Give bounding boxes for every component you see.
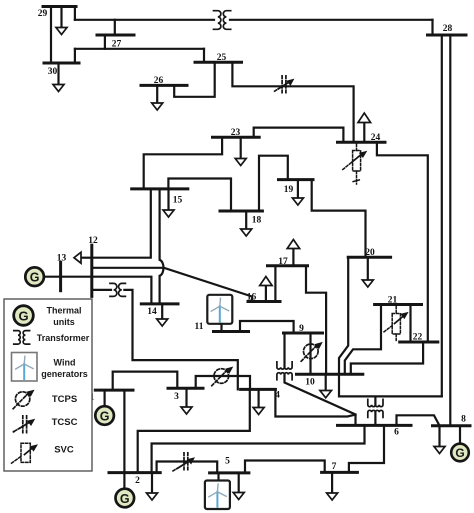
load arrow head bus 15 (163, 210, 174, 217)
bus 22 bar (400, 341, 438, 344)
thermal unit G bus 1 (95, 406, 114, 425)
wire 24-25 (232, 62, 353, 142)
wire 2-4 (138, 389, 250, 472)
bus 21 bar (375, 303, 422, 306)
load arrow bus 20 (367, 257, 369, 280)
bus 14 bar (141, 302, 178, 305)
legend wind generator icon (12, 353, 38, 382)
load arrow head bus 4 (253, 408, 264, 415)
bus 27 bar (97, 34, 134, 37)
load arrow head bus 19 (292, 198, 303, 205)
SVC at bus 24 (343, 144, 361, 184)
wire 6-7 (349, 425, 384, 472)
bus 16 bar (248, 300, 280, 303)
svg-text:Transformer: Transformer (37, 333, 90, 343)
svg-text:G: G (30, 271, 40, 285)
wire 6-8 (397, 415, 440, 425)
wire down to bus 25 (203, 49, 205, 62)
wire 1-2 (123, 390, 125, 473)
load arrow bus 15 (167, 189, 169, 210)
svg-text:15: 15 (173, 196, 183, 206)
svg-text:13: 13 (57, 254, 67, 264)
load arrow bus 30 (57, 63, 59, 85)
load arrow bus 29 (60, 7, 62, 28)
wire 27-30 and 25-27 shared horizontal (75, 48, 204, 50)
svg-text:25: 25 (217, 53, 227, 63)
legend thermal unit icon (14, 306, 34, 326)
load arrow bus 4 (258, 389, 260, 407)
wire 9-11 (240, 321, 294, 333)
bus 18 bar (220, 210, 262, 213)
svg-text:19: 19 (284, 185, 294, 195)
wire 29-30 (50, 7, 52, 64)
svg-text:21: 21 (388, 296, 398, 306)
wire bus 27 down tap (104, 35, 106, 49)
thermal unit G bus 8 (451, 444, 469, 462)
bus 8 bar (433, 424, 471, 427)
bus 13 bar (vertical) (59, 262, 62, 290)
load arrow bus 3 (185, 388, 187, 407)
load arrow bus 5 (238, 473, 240, 493)
svg-text:G: G (455, 446, 464, 460)
wire 16-17 (274, 266, 276, 302)
TCSC on line 2-5 (173, 453, 195, 472)
wire G to 13 to 12 (44, 276, 92, 278)
load arrow head bus 26 (152, 103, 163, 110)
load arrow head bus 18 (241, 229, 252, 236)
load arrow bus 8 (438, 426, 440, 447)
TCSC on line 24-25 (275, 76, 295, 95)
wire 6-28 long vertical (441, 35, 443, 396)
wire 4-6 (275, 389, 355, 416)
wire 18-19 (259, 156, 288, 211)
wire tap to bus 27 (114, 20, 116, 35)
wire 12-16 (92, 268, 252, 302)
wire 19-20 (312, 180, 366, 258)
wire 6-9 through transformer (285, 333, 356, 425)
svg-text:Thermal: Thermal (46, 306, 81, 316)
bus 11 bar (214, 330, 249, 333)
svg-text:26: 26 (154, 76, 164, 86)
wire 14-15 (with crossover hop) (160, 189, 164, 304)
wire G stem bus 8 (459, 426, 461, 444)
svg-text:3: 3 (174, 392, 179, 402)
load arrow head bus 14 (157, 319, 168, 326)
svg-text:18: 18 (252, 216, 262, 226)
wire down to bus 30 (74, 49, 76, 63)
load arrow bus 10 (325, 374, 327, 390)
wire 12-14 (92, 277, 152, 304)
transformer 6-9 (277, 362, 292, 380)
bus 15 bar (132, 187, 188, 190)
svg-text:units: units (53, 317, 75, 327)
bus 23 bar (213, 136, 260, 139)
SVC arrow head at bus 24 (359, 151, 368, 158)
transformer 6-10 (368, 399, 383, 417)
wind generator bus 5 (205, 481, 230, 510)
wire 1-3 (113, 372, 178, 391)
wire 10-22 (351, 342, 423, 374)
wire 10-20 (339, 257, 348, 374)
wire 4-12 through transformer (92, 290, 238, 390)
svg-text:29: 29 (38, 9, 48, 19)
svg-text:5: 5 (225, 457, 230, 467)
transformer 27-28 (214, 11, 231, 30)
thermal unit G bus 2 (116, 489, 135, 508)
bus 9 bar (284, 332, 323, 335)
bus 20 bar (348, 256, 390, 259)
injection arrow bus 24 (363, 123, 365, 143)
injection arrow bus 16 (265, 286, 267, 302)
svg-text:8: 8 (461, 415, 466, 425)
SVC arrow at bus 24 (352, 154, 362, 162)
wire 2-6 (152, 425, 365, 472)
load arrow bus 18 (245, 211, 247, 229)
load arrow head bus 30 (53, 85, 64, 92)
load arrow head bus 5 (233, 493, 244, 500)
svg-text:Wind: Wind (54, 358, 76, 368)
load arrow head bus 8 (434, 447, 445, 454)
wire 10-21 (345, 305, 381, 375)
wire G stem bus 2 (123, 473, 125, 488)
TCSC on line 21-22 (384, 306, 409, 341)
svg-text:9: 9 (299, 324, 304, 334)
svg-text:11: 11 (195, 322, 204, 332)
bus 17 bar (268, 264, 308, 267)
load arrow bus 2 (151, 473, 153, 493)
wire 21-22 (409, 305, 411, 343)
bus 2 bar (109, 471, 160, 474)
injection arrow head bus 17 (287, 240, 299, 249)
wire 3-4 through TCPS (196, 376, 250, 389)
svg-text:SVC: SVC (54, 445, 74, 456)
bus 28 bar (428, 34, 467, 37)
svg-text:G: G (100, 409, 110, 423)
bus 25 bar (195, 61, 242, 64)
load arrow bus 26 (156, 85, 158, 103)
wire 5-7 (245, 461, 325, 473)
svg-text:G: G (120, 492, 130, 506)
TCPS on line 9-10 (301, 342, 323, 361)
svg-text:12: 12 (88, 236, 98, 246)
wire 9-10 (309, 333, 311, 374)
bus 19 bar (279, 178, 314, 181)
load arrow head bus 10 (320, 391, 332, 398)
thermal unit G bus 13 (25, 267, 44, 286)
load arrow bus 7 (331, 472, 333, 493)
load arrow bus 14 (161, 304, 163, 319)
load arrow bus 19 (297, 180, 299, 198)
load arrow head bus 3 (181, 407, 192, 414)
bus 10 bar (297, 373, 363, 376)
wire 2-5 through TCSC (157, 462, 218, 473)
svg-text:TCSC: TCSC (52, 417, 78, 428)
bus 26 bar (141, 84, 187, 87)
transformer 4-12 (110, 283, 125, 296)
wire 15-23 (144, 137, 222, 189)
svg-text:2: 2 (135, 476, 140, 486)
svg-text:6: 6 (394, 428, 399, 438)
load arrow bus 23 (240, 137, 242, 158)
wire 6-10 through transformer (339, 374, 442, 425)
bus 12 bar (vertical) (90, 245, 93, 296)
legend box (4, 299, 92, 471)
load arrow head bus 2 (147, 493, 158, 500)
bus 1 bar (95, 389, 133, 392)
load arrow head bus 20 (362, 280, 373, 287)
svg-text:17: 17 (278, 257, 288, 267)
svg-text:24: 24 (371, 133, 381, 143)
wire 29 to top line (74, 7, 76, 20)
load arrow head bus 12 (74, 252, 81, 263)
legend TCSC icon (13, 416, 36, 433)
wire 12-15 (92, 189, 151, 258)
bus 5 bar (210, 471, 249, 474)
svg-text:TCPS: TCPS (52, 394, 77, 405)
bus 29 bar (43, 5, 76, 8)
load arrow bus 12 (left) (81, 257, 92, 259)
load arrow head bus 23 (235, 159, 246, 166)
injection arrow head bus 24 (358, 113, 371, 123)
legend SVC icon (12, 443, 39, 463)
injection arrow bus 17 (292, 249, 294, 266)
wire top line 27-28 left segment (75, 19, 214, 21)
svg-text:22: 22 (413, 333, 423, 343)
legend TCPS icon (13, 390, 34, 409)
svg-text:23: 23 (231, 128, 241, 138)
wire 8-28 long vertical (449, 35, 451, 426)
wire top line 27-28 right segment (230, 19, 433, 21)
wire G stem bus 1 (103, 390, 105, 406)
wire 10-17 (306, 266, 326, 375)
wire wind stem bus 11 (220, 324, 222, 332)
wind generator bus 11 (207, 295, 232, 324)
load arrow head bus 29 (56, 28, 67, 35)
svg-text:G: G (18, 309, 28, 324)
wire wind stem bus 5 (217, 473, 219, 481)
svg-text:28: 28 (443, 24, 453, 34)
load arrow head bus 7 (327, 493, 338, 500)
bus 30 bar (44, 62, 79, 65)
bus 24 bar (338, 141, 386, 144)
bus 3 bar (168, 387, 203, 390)
wire 22-24 (377, 142, 428, 342)
bus 7 bar (322, 471, 358, 474)
bus 4 bar (241, 388, 276, 391)
wire 25-26 (174, 62, 215, 97)
wire 23-24 (254, 128, 344, 143)
svg-text:10: 10 (305, 378, 315, 388)
svg-text:generators: generators (41, 369, 88, 379)
wire top line to bus 28 (431, 20, 433, 35)
svg-text:14: 14 (147, 307, 157, 317)
TCPS on line 3-4 (212, 367, 234, 386)
injection arrow head bus 16 (260, 277, 272, 286)
bus 6 bar (338, 424, 412, 427)
svg-text:7: 7 (332, 462, 337, 472)
svg-text:30: 30 (48, 67, 58, 77)
wire 15-18 (168, 179, 231, 212)
legend transformer icon (14, 331, 30, 345)
